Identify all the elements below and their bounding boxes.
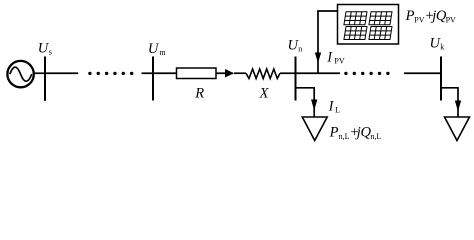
- load tap at Un: [296, 88, 315, 117]
- bus Us: [44, 57, 46, 101]
- svg-text:X: X: [259, 86, 270, 102]
- load triangle at Un: [302, 117, 327, 141]
- wire resistor to arrow: [216, 72, 233, 74]
- AC source G: [7, 61, 33, 87]
- wire reactance to bus Un: [280, 72, 296, 74]
- resistor R (rectangle): [177, 68, 217, 79]
- svg-text:n,L: n,L: [339, 132, 350, 141]
- arrow at Uk load: [455, 101, 461, 112]
- bus Um: [152, 57, 154, 101]
- load triangle at Uk: [445, 117, 470, 141]
- svg-text:U: U: [148, 41, 160, 57]
- svg-text:n,L: n,L: [370, 132, 381, 141]
- wire source to bus Us: [34, 72, 45, 74]
- svg-text:P: P: [405, 8, 415, 24]
- svg-text:n: n: [298, 44, 302, 53]
- wire Us to dots: [45, 72, 78, 74]
- svg-text:PV: PV: [334, 57, 344, 66]
- wire dots to bus Uk: [404, 72, 441, 74]
- svg-text:L: L: [335, 105, 340, 114]
- svg-text:P: P: [329, 125, 339, 141]
- arrow IL: [311, 100, 317, 111]
- dotted line (ellipsis) right: [344, 72, 389, 75]
- svg-text:k: k: [440, 43, 444, 52]
- reactance X (zigzag): [246, 69, 280, 79]
- wire Un to dots (PV junction): [296, 72, 341, 74]
- label PnL+jQnL: [329, 125, 382, 141]
- svg-text:R: R: [194, 86, 204, 102]
- arrow IPV: [315, 53, 321, 64]
- svg-text:s: s: [49, 47, 52, 56]
- bus Un: [295, 57, 297, 101]
- bus Uk: [440, 57, 442, 101]
- svg-text:PV: PV: [414, 16, 424, 25]
- current direction arrow on line: [225, 69, 234, 78]
- PV panel: [338, 5, 399, 45]
- wire Um to resistor: [153, 72, 177, 74]
- label PPV+jQPV: [405, 8, 456, 25]
- svg-text:PV: PV: [446, 16, 456, 25]
- load tap at Uk: [441, 88, 458, 117]
- wire arrow to reactance: [234, 72, 246, 74]
- svg-text:m: m: [159, 48, 166, 57]
- PV drop wire: [318, 11, 338, 73]
- dotted line (ellipsis) left: [88, 72, 133, 75]
- wire dots to bus Um: [142, 72, 154, 74]
